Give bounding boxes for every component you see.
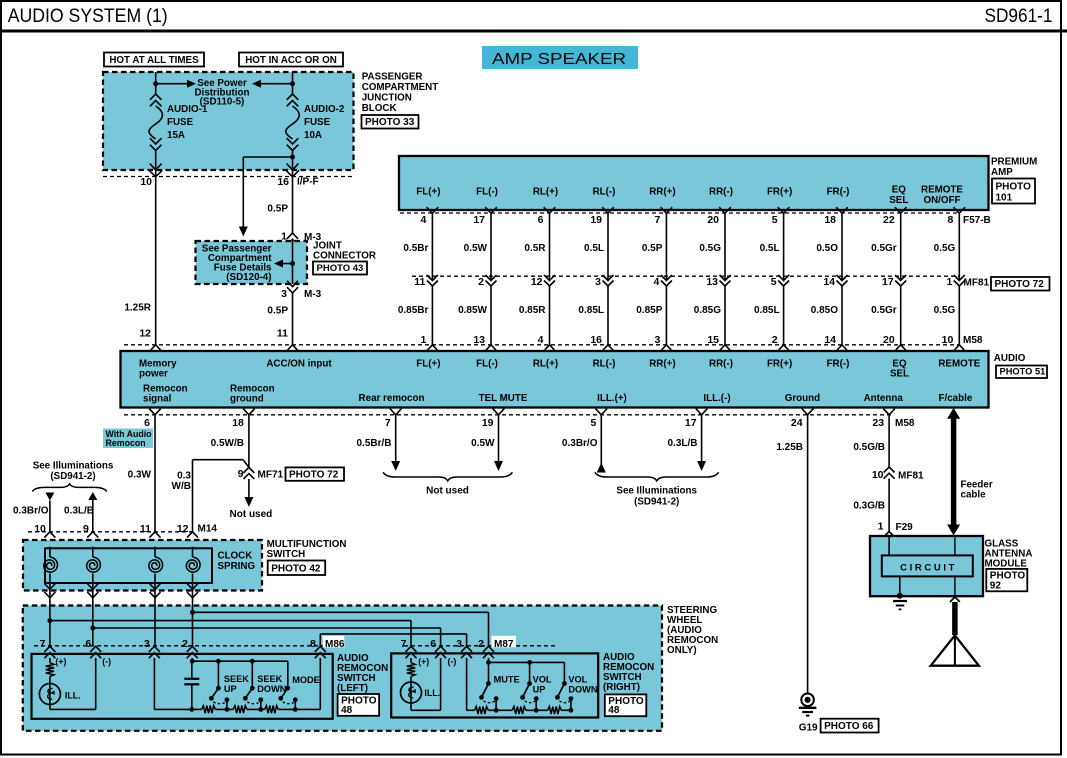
interconnect ground to right pin2 (193, 612, 489, 646)
svg-text:7: 7 (401, 638, 407, 650)
PHOTO 42 box (268, 561, 326, 576)
connector MF71 chevrons (243, 467, 254, 479)
connector M58 bottom blue label (895, 418, 915, 429)
svg-text:0.3W: 0.3W (128, 470, 152, 481)
svg-text:0.5Br/B: 0.5Br/B (356, 438, 391, 449)
svg-text:10: 10 (34, 523, 46, 535)
PHOTO 48 box right (605, 694, 647, 716)
svg-text:4: 4 (421, 214, 427, 226)
fuse AUDIO-1 15A (149, 81, 163, 177)
JOINT CONNECTOR name (313, 241, 376, 262)
svg-text:0.85P: 0.85P (636, 305, 662, 316)
svg-text:9: 9 (238, 468, 244, 480)
svg-text:RL(-): RL(-) (593, 358, 616, 369)
svg-text:20: 20 (883, 334, 895, 346)
vol up drop (529, 662, 531, 683)
svg-text:HOT AT ALL TIMES: HOT AT ALL TIMES (109, 55, 199, 66)
fuse AUDIO-2 label (304, 104, 345, 141)
svg-text:SD961-1: SD961-1 (985, 5, 1053, 27)
svg-text:M14: M14 (198, 523, 218, 534)
svg-text:cable: cable (961, 490, 987, 501)
junction dot right pin2 (486, 660, 491, 665)
connector F29 chevrons (884, 532, 895, 544)
audio top pin chevrons (150, 345, 965, 351)
wire remocon ground to left pin2 (192, 606, 194, 647)
svg-text:RR(+): RR(+) (649, 187, 675, 198)
left remocon pin dashed row (34, 645, 332, 647)
left capacitor (184, 661, 199, 709)
svg-text:0.3Br/O: 0.3Br/O (562, 438, 598, 449)
see illuminations text right (616, 486, 697, 508)
joint connector left arrow (274, 260, 293, 268)
connector MF81 blue label (964, 277, 990, 288)
svg-text:0.5O: 0.5O (816, 243, 838, 254)
svg-text:10: 10 (942, 334, 954, 346)
premium amp pin name labels (416, 185, 963, 207)
connector M-3 top blue label (304, 232, 322, 243)
connector MF71 blue label (258, 469, 284, 480)
svg-text:0.3L/B: 0.3L/B (64, 506, 94, 517)
svg-text:UP: UP (224, 684, 237, 694)
svg-text:PHOTO 66: PHOTO 66 (824, 721, 874, 732)
svg-text:0.5Gr: 0.5Gr (871, 305, 897, 316)
connector M87 blue label (494, 639, 514, 650)
PHOTO 92 box (986, 569, 1027, 591)
left ILL text (65, 691, 81, 701)
svg-text:0.5Br: 0.5Br (403, 243, 428, 254)
svg-text:AMP SPEAKER: AMP SPEAKER (492, 51, 626, 68)
connector F57-B blue label (963, 215, 991, 226)
junction dot ILL+ (47, 618, 52, 623)
svg-text:16: 16 (590, 334, 602, 346)
interconnect left pin8 to right pin3 (320, 634, 466, 646)
junction dot rail voldown (569, 708, 574, 713)
svg-text:10: 10 (872, 469, 884, 481)
svg-text:17: 17 (882, 276, 894, 288)
svg-text:12: 12 (177, 523, 189, 535)
audio top pin numbers (421, 334, 954, 346)
wires clock spring to steering wheel (50, 583, 193, 606)
svg-text:0.5W: 0.5W (471, 438, 495, 449)
wire gauge labels row 1 (403, 243, 955, 254)
svg-text:JUNCTION: JUNCTION (362, 92, 412, 103)
right pin3 drop (466, 658, 468, 710)
right top rail (489, 661, 565, 663)
glass antenna name (985, 539, 1033, 570)
title AUDIO SYSTEM (1) (8, 5, 168, 27)
wire label 1.25R (124, 303, 151, 314)
svg-text:FUSE: FUSE (304, 117, 331, 128)
premium amp pin dashed row (400, 212, 959, 214)
svg-text:0.3Br/O: 0.3Br/O (13, 506, 49, 517)
svg-text:HOT IN ACC OR ON: HOT IN ACC OR ON (245, 55, 337, 66)
VOL UP text (533, 675, 552, 695)
svg-text:18: 18 (824, 214, 836, 226)
M87 white backing (492, 636, 517, 648)
svg-text:0.5P: 0.5P (267, 204, 288, 215)
svg-text:PHOTO 51: PHOTO 51 (1000, 367, 1046, 377)
svg-text:AMP: AMP (991, 167, 1013, 178)
left pin3 drop (153, 658, 155, 709)
audio unit box (121, 351, 989, 408)
svg-text:REMOTE: REMOTE (921, 185, 963, 196)
svg-text:14: 14 (823, 276, 835, 288)
connector M14 blue label (198, 523, 218, 534)
svg-text:FR(-): FR(-) (827, 358, 850, 369)
feeder cable thick line (947, 408, 960, 536)
svg-text:EQ: EQ (892, 185, 907, 196)
svg-text:4: 4 (654, 276, 660, 288)
glass antenna F29 internal wire (888, 536, 890, 555)
junction dot vol up top (527, 660, 532, 665)
wire label 0.5W/B (211, 438, 244, 449)
with audio remocon highlight (103, 429, 153, 449)
connector G19 blue label (799, 722, 818, 733)
clock spring pin numbers (34, 523, 188, 535)
audio unit pin dashed row top (124, 344, 959, 346)
wire label 0.5G/B (853, 442, 885, 453)
svg-text:ON/OFF: ON/OFF (923, 195, 960, 206)
svg-text:4: 4 (538, 334, 544, 346)
svg-text:FR(-): FR(-) (827, 187, 850, 198)
svg-text:6: 6 (538, 214, 544, 226)
svg-text:RR(+): RR(+) (649, 358, 675, 369)
wire label 0.3 W/B (172, 471, 192, 492)
right minus label (448, 657, 457, 667)
svg-text:0.85R: 0.85R (519, 305, 546, 316)
glass antenna module box (870, 536, 983, 596)
svg-text:3: 3 (144, 638, 150, 650)
svg-text:VOL: VOL (568, 675, 587, 685)
wire label 0.5P lower (267, 306, 288, 317)
svg-text:20: 20 (707, 214, 719, 226)
switch MODE (278, 686, 297, 710)
wire label 0.3L/B (64, 506, 94, 517)
svg-text:FL(+): FL(+) (416, 187, 440, 198)
svg-text:M-3: M-3 (304, 289, 322, 300)
passenger compartment junction block box (103, 72, 354, 170)
junction dot seek down top (250, 659, 255, 664)
svg-text:(SD941-2): (SD941-2) (50, 471, 95, 482)
wire label 0.3Br/O right (562, 438, 598, 449)
right remocon pin chevrons (406, 646, 495, 658)
pin 12 audio label (139, 328, 151, 340)
svg-text:AUDIO: AUDIO (994, 353, 1026, 364)
left resistor (46, 658, 54, 709)
clock spring pin dashed row (28, 531, 194, 533)
audio remocon switch left box (32, 654, 333, 719)
svg-text:17: 17 (685, 417, 697, 429)
arrow into joint connector (239, 227, 248, 237)
PHOTO 33 box (362, 115, 419, 129)
audio bottom pin numbers (144, 417, 884, 429)
svg-text:48: 48 (608, 705, 620, 716)
antenna chevron (950, 597, 960, 602)
wire 0.5P M-3 to audio (292, 293, 294, 345)
svg-text:7: 7 (655, 214, 661, 226)
svg-text:G19: G19 (799, 722, 818, 733)
wire 0.3G/B (888, 479, 890, 532)
vol down drop (563, 662, 565, 683)
svg-text:W/B: W/B (172, 481, 191, 492)
svg-text:0.5Gr: 0.5Gr (871, 243, 897, 254)
svg-text:10: 10 (140, 176, 152, 188)
svg-text:RR(-): RR(-) (709, 187, 733, 198)
svg-text:0.85W: 0.85W (458, 305, 487, 316)
connector M-3 bottom blue label (304, 289, 322, 300)
M86 white backing (323, 636, 345, 648)
svg-text:RL(+): RL(+) (533, 187, 558, 198)
svg-text:0.5R: 0.5R (524, 243, 546, 254)
svg-text:REMOTE: REMOTE (938, 358, 980, 369)
junction dot rail volup (534, 708, 539, 713)
see illuminations text left (33, 461, 114, 482)
pin 11 audio label (277, 328, 288, 340)
svg-text:UP: UP (533, 685, 546, 695)
svg-text:0.5G: 0.5G (699, 243, 721, 254)
pin 10 label (140, 176, 152, 188)
junction block name text (362, 72, 439, 114)
svg-text:Rear remocon: Rear remocon (359, 393, 425, 404)
antenna symbol (931, 635, 979, 665)
joint connector see passenger text (202, 244, 272, 274)
svg-text:101: 101 (996, 193, 1013, 204)
connector MF81 inline blue label (898, 470, 924, 481)
SD110-5 blue text (200, 97, 245, 108)
multifunction switch dashed box (23, 540, 262, 591)
svg-text:3: 3 (281, 288, 287, 300)
svg-text:1: 1 (421, 334, 427, 346)
svg-text:MF81: MF81 (898, 470, 924, 481)
switch VOL UP (520, 681, 538, 710)
svg-text:ILL.(-): ILL.(-) (703, 393, 730, 404)
svg-text:ACC/ON input: ACC/ON input (266, 358, 332, 369)
svg-text:ILL.: ILL. (424, 688, 440, 698)
svg-text:0.5G: 0.5G (934, 243, 956, 254)
wire label 0.3L/B right (667, 438, 697, 449)
see power distribution arrows (156, 80, 293, 88)
svg-text:16: 16 (277, 176, 289, 188)
wire 0.5G/B pin23 down (888, 415, 890, 467)
svg-text:19: 19 (590, 214, 602, 226)
junction dot cap bottom (189, 707, 194, 712)
left plus label (55, 657, 66, 667)
connector MF81 chevrons (427, 275, 965, 286)
junction dot rail seekup (225, 707, 230, 712)
svg-text:SEL: SEL (890, 368, 909, 379)
brace see illuminations (595, 472, 719, 481)
pin 1 label (281, 231, 287, 243)
svg-text:SWITCH: SWITCH (267, 549, 306, 560)
svg-text:14: 14 (824, 334, 836, 346)
wire label 0.5W (471, 438, 495, 449)
SEEK DOWN text (257, 674, 286, 694)
brace not used (383, 472, 512, 481)
svg-text:M58: M58 (895, 418, 915, 429)
title SD961-1 (985, 5, 1053, 27)
svg-text:F57-B: F57-B (963, 215, 991, 226)
connector F29 blue label (896, 522, 914, 533)
svg-text:F29: F29 (896, 522, 914, 533)
svg-text:power: power (139, 368, 168, 379)
svg-text:ONLY): ONLY) (667, 645, 697, 656)
wire 0.5P pin16 to M-3 (292, 177, 294, 234)
fuse AUDIO-1 label (167, 104, 208, 141)
switch SEEK UP (209, 686, 229, 710)
svg-text:3: 3 (595, 276, 601, 288)
svg-text:PASSENGER: PASSENGER (362, 72, 423, 83)
svg-text:13: 13 (706, 276, 718, 288)
svg-text:5: 5 (590, 417, 596, 429)
junction dot rail mute (494, 708, 499, 713)
svg-text:PHOTO 43: PHOTO 43 (317, 263, 364, 274)
wire 1.25B pin24 to G19 (807, 415, 809, 694)
PHOTO 72 box left (286, 467, 345, 480)
wire 0.3W pin6 to clock spring (154, 415, 156, 532)
svg-text:MF71: MF71 (258, 469, 284, 480)
svg-text:MODE: MODE (292, 675, 320, 685)
label HOT IN ACC OR ON box (239, 53, 343, 67)
left ILL lamp (39, 684, 60, 705)
pin 9 MF71 label (238, 468, 244, 480)
clock spring name (218, 551, 256, 572)
svg-text:48: 48 (341, 705, 353, 716)
svg-text:MODULE: MODULE (985, 559, 1028, 570)
svg-text:ILL.(+): ILL.(+) (597, 393, 627, 404)
junction dot on AUDIO-2 output (290, 155, 295, 160)
svg-text:F/cable: F/cable (939, 393, 973, 404)
svg-text:5: 5 (772, 214, 778, 226)
wire label 0.3Br/O (13, 506, 49, 517)
svg-text:FL(-): FL(-) (476, 358, 498, 369)
svg-text:1: 1 (946, 276, 952, 288)
svg-text:AUDIO SYSTEM (1): AUDIO SYSTEM (1) (8, 5, 168, 27)
svg-text:11: 11 (414, 276, 425, 288)
interconnect ILL+ to right pin7 (50, 621, 411, 647)
right plus label (418, 657, 429, 667)
left remocon name (337, 653, 388, 694)
arrow down 0.3Br/O (45, 493, 54, 532)
svg-text:FR(+): FR(+) (767, 187, 792, 198)
svg-text:(+): (+) (418, 657, 429, 667)
junction dot rail mode (293, 707, 298, 712)
svg-text:15A: 15A (167, 130, 185, 141)
clock spring top chevrons (44, 532, 198, 547)
left lamp loop (50, 658, 96, 709)
pin 3 label (281, 288, 287, 300)
svg-text:7: 7 (385, 417, 391, 429)
wires MF81 to audio (432, 286, 959, 345)
MUTE text (494, 675, 520, 685)
right remocon pin dashed row (404, 645, 556, 647)
svg-text:FR(+): FR(+) (767, 358, 792, 369)
svg-text:C I R C U I T: C I R C U I T (900, 562, 955, 573)
svg-text:7: 7 (40, 638, 46, 650)
right ILL lamp (401, 682, 422, 703)
svg-text:SEEK: SEEK (257, 674, 282, 684)
svg-text:M58: M58 (963, 335, 983, 346)
svg-text:RL(-): RL(-) (593, 187, 616, 198)
premium amp pin chevrons (427, 207, 966, 213)
arrow up 0.3L/B (88, 492, 97, 532)
PHOTO 51 box (996, 366, 1047, 379)
svg-text:5: 5 (771, 276, 777, 288)
svg-text:(LEFT): (LEFT) (337, 683, 368, 694)
svg-text:12: 12 (139, 328, 151, 340)
svg-text:0.5W: 0.5W (464, 243, 488, 254)
svg-text:PHOTO 72: PHOTO 72 (995, 279, 1045, 290)
right pin2 drop (488, 658, 490, 684)
left remocon pin numbers (40, 638, 316, 650)
svg-text:CONNECTOR: CONNECTOR (313, 251, 376, 262)
right lamp loop (411, 658, 441, 710)
audio unit pin dashed row bottom (124, 414, 893, 416)
svg-text:0.5L: 0.5L (760, 243, 780, 254)
wires premium amp to MF81 (432, 213, 959, 280)
svg-text:SEEK: SEEK (224, 674, 249, 684)
connector M-3 top chevrons (287, 233, 298, 245)
svg-text:0.5P: 0.5P (267, 306, 288, 317)
wire gauge labels row 2 (398, 305, 956, 316)
svg-text:11: 11 (277, 328, 288, 340)
svg-text:Not used: Not used (230, 509, 273, 520)
connector I/P-F blue label (297, 176, 319, 187)
clock spring bottom chevrons (44, 584, 198, 598)
svg-text:SPRING: SPRING (218, 561, 256, 572)
svg-text:2: 2 (182, 638, 188, 650)
svg-text:AUDIO-2: AUDIO-2 (304, 104, 345, 115)
connector M-3 bottom chevrons (287, 281, 298, 293)
antenna mast (952, 602, 958, 635)
svg-text:0.85Br: 0.85Br (398, 305, 429, 316)
pin 16 label (277, 176, 289, 188)
left top rail (192, 658, 287, 661)
svg-text:ground: ground (230, 393, 264, 404)
svg-text:23: 23 (872, 417, 884, 429)
svg-text:22: 22 (883, 214, 895, 226)
svg-text:MUTE: MUTE (494, 675, 520, 685)
see illum arrow pin5 (597, 415, 606, 473)
circuit box (882, 555, 973, 576)
svg-text:MF81: MF81 (964, 277, 990, 288)
svg-text:0.85L: 0.85L (578, 305, 604, 316)
interconnect ILL- to right pin6 (93, 628, 441, 646)
pin 1 F29 label (878, 521, 884, 533)
PHOTO 72 box right (991, 277, 1050, 291)
premium amp pin numbers (421, 214, 954, 226)
svg-text:2: 2 (772, 334, 778, 346)
svg-text:8: 8 (947, 214, 953, 226)
svg-text:PHOTO 72: PHOTO 72 (289, 469, 339, 480)
svg-text:TEL MUTE: TEL MUTE (479, 393, 528, 404)
svg-text:RR(-): RR(-) (709, 358, 733, 369)
not used text left (230, 509, 273, 520)
seek down drop (251, 661, 253, 688)
not used arrow pin18 (244, 479, 253, 507)
svg-text:0.85L: 0.85L (754, 305, 780, 316)
svg-text:FL(-): FL(-) (476, 187, 498, 198)
VOL DOWN text (568, 675, 597, 695)
svg-text:11: 11 (140, 523, 151, 535)
glass antenna ground (893, 577, 907, 610)
svg-text:10A: 10A (304, 130, 322, 141)
junction dot seek up top (216, 659, 221, 664)
svg-text:See Illuminations: See Illuminations (616, 486, 697, 497)
connector M58 top blue label (963, 335, 983, 346)
see power distribution text (195, 78, 250, 99)
svg-text:(+): (+) (55, 657, 66, 667)
svg-text:PHOTO 33: PHOTO 33 (365, 117, 415, 128)
